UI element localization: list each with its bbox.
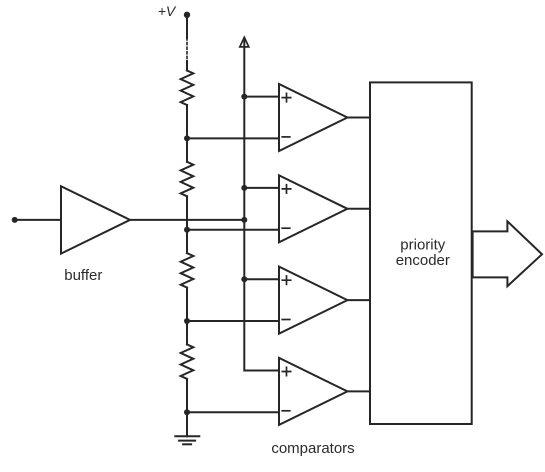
resistor R3 <box>181 253 194 288</box>
wire: input to buffer <box>15 219 61 221</box>
wire: R3 to R4 (tap 3) <box>186 288 188 345</box>
junction dot: signal line to U3 + input <box>241 276 247 282</box>
svg-text:buffer: buffer <box>64 267 102 284</box>
resistor R2 <box>181 162 194 197</box>
wire: signal line to comparator U2 noninverting input <box>244 187 279 189</box>
wire: +V down to dashed break <box>186 15 188 38</box>
junction dot: buffer output on signal line <box>241 217 247 223</box>
wire: tap 1 to comparator U1 inverting input <box>187 137 279 139</box>
dashed wire segment <box>186 38 188 61</box>
wire: buffer output to signal line <box>130 219 244 221</box>
junction dot: signal line to U2 + input <box>241 185 247 191</box>
priority encoder block <box>370 82 472 424</box>
wire: U3 output to encoder <box>347 299 370 301</box>
junction dot: signal line to U1 + input <box>241 94 247 100</box>
junction dot: ladder tap 1 <box>184 135 190 141</box>
op-amp comparator U3 <box>279 267 347 334</box>
junction dot: ladder tap 4 <box>184 409 190 415</box>
+V supply node dot <box>184 12 190 18</box>
junction dot: ladder tap 2 <box>184 227 190 233</box>
svg-text:+V: +V <box>158 3 177 19</box>
input node dot <box>12 217 18 223</box>
wire: U1 output to encoder <box>347 117 370 119</box>
wire: tap 2 to comparator U2 inverting input <box>187 229 279 231</box>
wire: U2 output to encoder <box>347 208 370 210</box>
svg-text:comparators: comparators <box>271 440 354 457</box>
wire: signal distribution vertical line with bend to U4 + input <box>244 38 279 370</box>
resistor R4 <box>181 344 194 379</box>
resistor R1 <box>181 71 194 106</box>
wire: dashed break to resistor R1 <box>186 61 188 71</box>
wire: signal line to comparator U3 noninverting input <box>244 278 279 280</box>
arrowhead at top of signal line <box>240 37 249 47</box>
wire: tap 3 to comparator U3 inverting input <box>187 320 279 322</box>
wire: R1 to R2 (tap 1) <box>186 105 188 162</box>
op-amp comparator U1 <box>279 84 347 151</box>
svg-text:priority: priority <box>400 236 446 253</box>
wire: U4 output to encoder <box>347 390 370 392</box>
buffer amplifier triangle <box>61 186 130 253</box>
wire: R2 to R3 (tap 2) <box>186 196 188 253</box>
wire: tap 4 to comparator U4 inverting input <box>187 411 279 413</box>
wire: R4 to ground <box>186 379 188 436</box>
junction dot: ladder tap 3 <box>184 318 190 324</box>
wire: signal line to comparator U1 noninverting input <box>244 96 279 98</box>
label priority encoder <box>396 236 450 268</box>
ground <box>175 436 199 444</box>
op-amp comparator U4 <box>279 358 347 425</box>
svg-text:encoder: encoder <box>396 252 450 269</box>
output bus block arrow <box>473 221 542 286</box>
op-amp comparator U2 <box>279 175 347 242</box>
